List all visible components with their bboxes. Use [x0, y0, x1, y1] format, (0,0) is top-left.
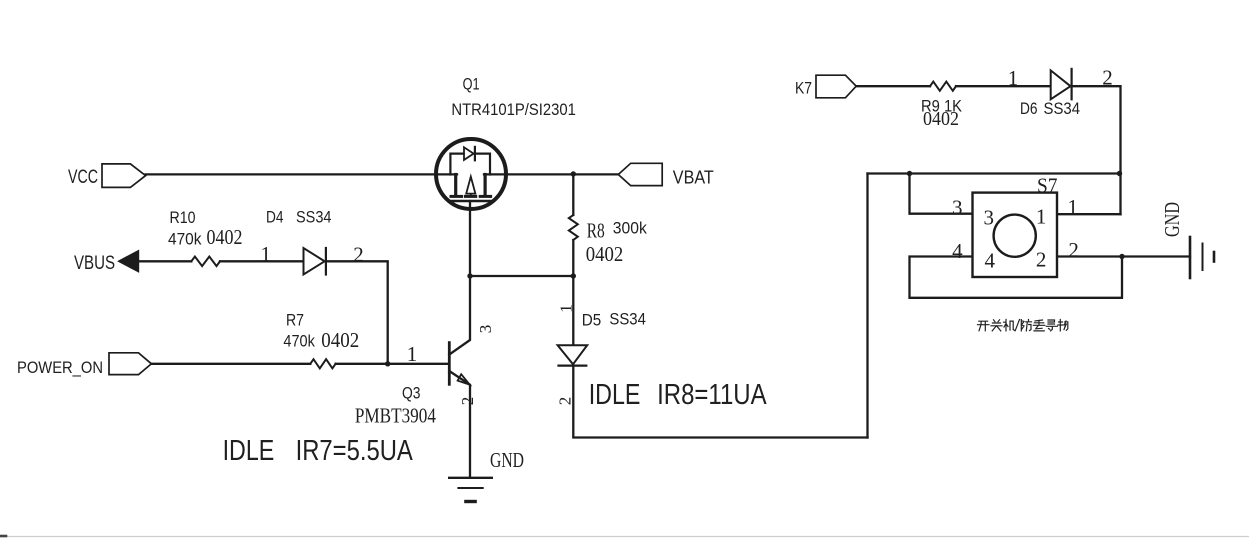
Q1 left contact bar [454, 175, 457, 196]
svg-text:VBUS: VBUS [74, 253, 115, 274]
connector K7 [816, 75, 856, 98]
svg-text:SS34: SS34 [609, 310, 646, 329]
transistor Q3 emitter diagonal [449, 371, 469, 384]
svg-text:1: 1 [407, 342, 418, 366]
caption chinese slash [1015, 320, 1019, 331]
diode D4 triangle [304, 248, 325, 275]
wire S7 pin4 loop [910, 257, 1123, 298]
connector VBUS arrow [117, 250, 139, 273]
svg-text:D5: D5 [582, 311, 602, 330]
node junction dot R8 bottom [571, 273, 576, 278]
resistor R9 zigzag [930, 82, 956, 91]
svg-text:GND: GND [1160, 202, 1184, 237]
Q1 channel segment 1 [451, 195, 462, 198]
node junction dot top line right [1117, 171, 1122, 176]
wire Q1 gate down to Q3 collector [449, 201, 470, 355]
svg-text:470k: 470k [283, 332, 315, 351]
Q1 top loop wires [450, 154, 490, 175]
bottom left mark [0, 535, 6, 538]
svg-text:D6: D6 [1020, 99, 1038, 118]
svg-text:4: 4 [952, 239, 963, 263]
svg-text:4: 4 [984, 249, 995, 273]
svg-text:SS34: SS34 [1044, 99, 1081, 118]
svg-text:1: 1 [261, 242, 272, 266]
svg-text:R8: R8 [587, 219, 605, 243]
connector VBAT [618, 163, 662, 185]
ground under Q3 [449, 477, 492, 479]
svg-text:R10: R10 [170, 208, 196, 227]
Q1 substrate arrow head [466, 177, 475, 194]
svg-text:1: 1 [1068, 195, 1079, 219]
svg-text:2: 2 [353, 243, 364, 267]
diode D5 triangle [558, 345, 588, 364]
ground right bar1 [1189, 237, 1192, 278]
svg-text:PMBT3904: PMBT3904 [355, 404, 436, 428]
resistor R8 zigzag [569, 215, 578, 240]
svg-text:POWER_ON: POWER_ON [17, 358, 103, 377]
connector POWER_ON [109, 353, 151, 375]
svg-text:2: 2 [1068, 238, 1079, 262]
wire R10 to D4 [220, 260, 304, 262]
wire VBUS to R10 [139, 260, 191, 262]
svg-text:1: 1 [1036, 205, 1047, 229]
node junction dot pin2 [1119, 254, 1124, 259]
Q1 substrate arrow line [470, 178, 472, 196]
wire K7 to R9 [856, 85, 930, 87]
node junction dot base [385, 361, 390, 366]
wire gate net horizontal [470, 275, 573, 277]
svg-text:S7: S7 [1037, 174, 1058, 198]
wire Q3 emitter down [469, 385, 471, 477]
resistor R7 zigzag [310, 359, 335, 368]
diode D5 cathode bar [559, 365, 587, 367]
svg-text:300k: 300k [613, 218, 647, 237]
resistor R8 leads [572, 174, 574, 276]
wire Q1 drain to VBAT [484, 173, 618, 175]
wire top right horizontal [868, 172, 1121, 174]
Q1 body diode cathode bar [474, 147, 476, 160]
diode D6 triangle [1051, 70, 1071, 99]
svg-text:3: 3 [984, 205, 995, 229]
ground right bar2 [1202, 244, 1204, 271]
svg-text:IDLE: IDLE [589, 379, 641, 411]
svg-text:GND: GND [490, 448, 524, 472]
wire R9 to D6 [956, 85, 1051, 87]
Q1 right contact bar [484, 175, 487, 196]
caption chinese 关 [991, 320, 1002, 331]
svg-text:470k: 470k [168, 229, 202, 248]
svg-text:0402: 0402 [321, 328, 359, 352]
node junction dot top line left [907, 171, 912, 176]
Q1 gate plate [451, 200, 491, 202]
node junction dot VBAT/R8 [571, 171, 576, 176]
svg-text:2: 2 [555, 397, 574, 406]
transistor Q3 emitter arrowhead [458, 374, 470, 385]
svg-text:SS34: SS34 [296, 207, 332, 226]
wire VCC to Q1 source [146, 173, 457, 175]
svg-text:1: 1 [557, 304, 576, 313]
wire D4 to base branch [326, 261, 388, 364]
node junction dot gate [467, 273, 472, 278]
diode D5 top lead [572, 276, 574, 345]
svg-text:VBAT: VBAT [673, 167, 714, 187]
svg-text:IDLE: IDLE [223, 435, 275, 467]
ground right bar3 [1213, 252, 1216, 262]
wire S7 pin1 [1057, 213, 1121, 215]
caption chinese 丢 [1033, 320, 1045, 331]
svg-text:Q1: Q1 [463, 74, 480, 93]
switch S7 button circle [994, 215, 1036, 257]
svg-text:IR8=11UA: IR8=11UA [657, 379, 767, 411]
switch S7 body [973, 193, 1058, 277]
svg-text:1: 1 [1008, 66, 1019, 90]
caption chinese 机 [1004, 320, 1015, 331]
svg-text:0402: 0402 [207, 225, 243, 249]
svg-text:K7: K7 [795, 78, 812, 97]
wire S7 pin2 to ground [1057, 255, 1190, 257]
wire D6 down [1072, 86, 1121, 214]
caption chinese 开 [978, 320, 1068, 331]
svg-text:3: 3 [952, 196, 963, 220]
svg-text:IR7=5.5UA: IR7=5.5UA [296, 435, 414, 467]
transistor Q3 base bar [448, 343, 451, 385]
resistor R10 zigzag [191, 257, 220, 267]
caption chinese 防 [1021, 320, 1031, 331]
caption chinese 物 [1058, 320, 1068, 331]
connector VCC [102, 164, 146, 188]
caption chinese 寻 [1046, 320, 1057, 331]
svg-text:0402: 0402 [923, 108, 959, 130]
diode D6 cathode bar [1070, 69, 1072, 99]
svg-text:VCC: VCC [68, 167, 98, 188]
svg-text:0402: 0402 [586, 242, 624, 266]
Q1 channel segment 3 [480, 195, 490, 198]
svg-text:2: 2 [1036, 248, 1047, 272]
wire D5 down and right [573, 366, 867, 438]
wire R7 to Q3 base [336, 363, 450, 365]
diode D4 cathode bar [325, 248, 327, 275]
wire right riser [866, 174, 868, 438]
Q1 body diode [464, 147, 474, 160]
svg-text:Q3: Q3 [402, 384, 421, 403]
svg-text:3: 3 [476, 325, 495, 334]
wire POWER_ON to R7 [151, 363, 310, 365]
svg-text:NTR4101P/SI2301: NTR4101P/SI2301 [451, 100, 576, 119]
svg-text:R7: R7 [286, 310, 304, 329]
wire to S7 pin3 [910, 174, 973, 214]
svg-text:2: 2 [458, 397, 477, 406]
transistor Q1 body circle [436, 139, 506, 209]
Q1 channel segment 2 [465, 195, 475, 198]
svg-text:D4: D4 [266, 207, 284, 226]
faint bottom scan line [0, 536, 1249, 538]
